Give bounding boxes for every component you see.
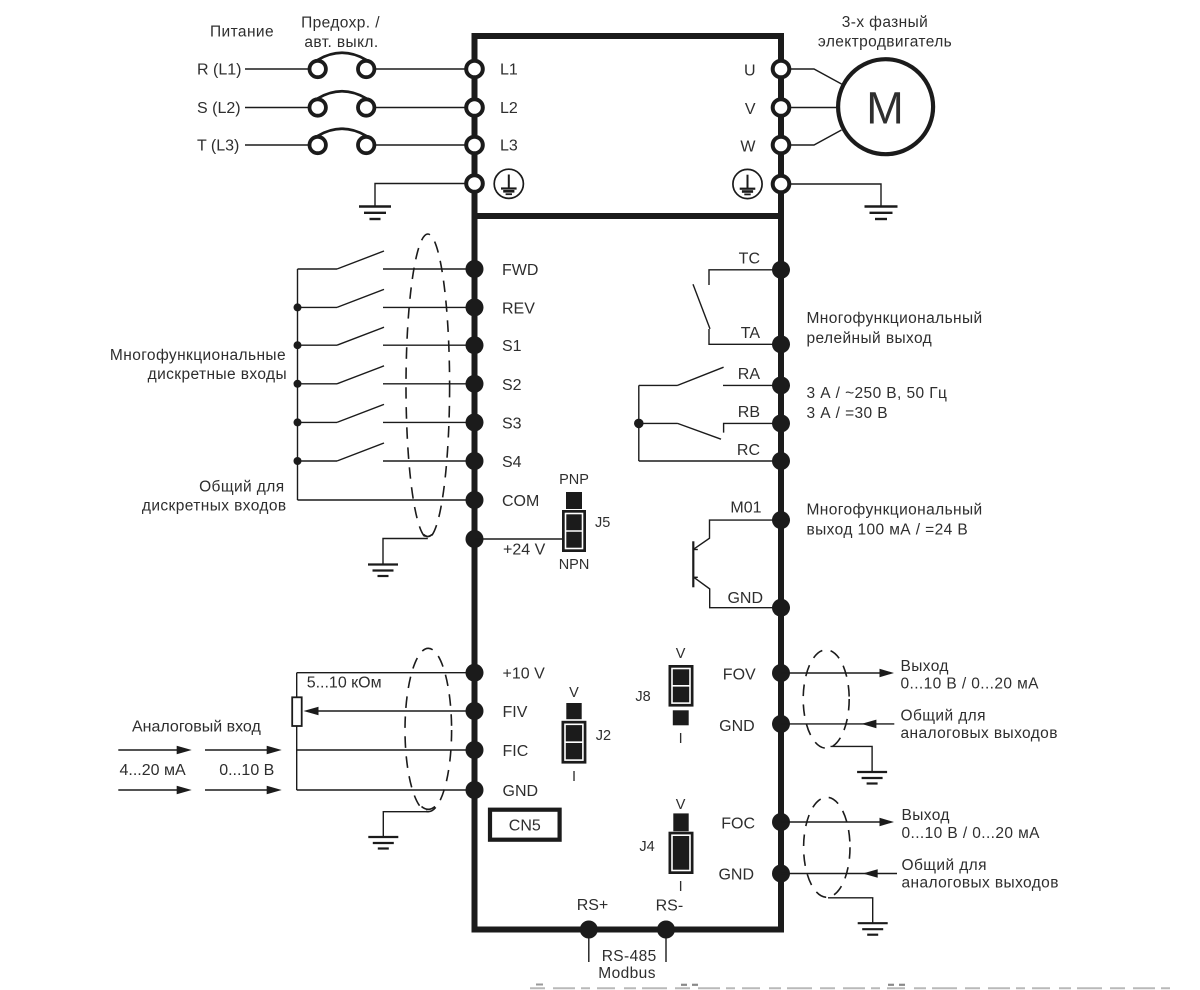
svg-text:M: M: [866, 83, 904, 134]
svg-text:CN5: CN5: [509, 818, 541, 835]
terminal L3: [466, 137, 483, 154]
svg-text:RS-: RS-: [656, 897, 684, 914]
wire T input: [245, 144, 310, 146]
wire TA to relay contact: [709, 329, 781, 344]
ground (motor side): [865, 207, 898, 220]
svg-text:S (L2): S (L2): [197, 100, 241, 117]
terminal TA: [772, 335, 790, 353]
svg-text:Питание: Питание: [210, 24, 274, 41]
terminal W: [773, 137, 790, 154]
terminal +24V: [466, 530, 484, 548]
svg-text:выход 100 мА / =24 В: выход 100 мА / =24 В: [807, 522, 969, 539]
svg-text:релейный выход: релейный выход: [807, 330, 933, 347]
svg-text:+10 V: +10 V: [503, 666, 546, 683]
switch SW-S3: [298, 404, 468, 422]
wire RA common: [639, 384, 678, 386]
wire transistor emitter to GND terminal: [694, 577, 781, 607]
wire RB fixed contact with step: [724, 423, 781, 432]
relay blade RB: [678, 423, 722, 439]
junction on bus at S2: [294, 380, 302, 388]
svg-text:NPN: NPN: [559, 557, 590, 573]
arrow: analog input current row (right): [205, 746, 282, 755]
svg-text:U: U: [744, 63, 756, 80]
svg-text:0...10 В / 0...20 мА: 0...10 В / 0...20 мА: [901, 676, 1040, 693]
wire RA fixed contact: [723, 384, 781, 386]
protective earth symbol (left, circled): [494, 169, 523, 198]
wire fuse to L3: [375, 144, 468, 146]
wire RC row: [639, 460, 781, 462]
jumper J5 top pin: [566, 492, 582, 509]
fuse F3 (T phase): [310, 129, 375, 153]
terminal COM: [466, 491, 484, 509]
svg-text:J8: J8: [635, 689, 650, 705]
svg-text:S1: S1: [502, 338, 522, 355]
wire S input: [245, 107, 310, 109]
svg-text:R (L1): R (L1): [197, 62, 241, 79]
svg-text:Выход: Выход: [902, 807, 950, 824]
svg-text:аналоговых выходов: аналоговых выходов: [902, 874, 1059, 891]
fuse F2 (S phase): [310, 91, 375, 115]
svg-text:FOV: FOV: [723, 667, 756, 684]
svg-text:GND: GND: [727, 590, 763, 607]
enclosure: inverter main box outline: [475, 36, 782, 930]
jumper J4 body: [669, 832, 694, 874]
wire PE input to ground: [375, 184, 467, 207]
connector CN5 box: [490, 810, 560, 840]
wire analog shield to ground: [383, 812, 428, 837]
svg-text:FOC: FOC: [721, 816, 755, 833]
terminal S2: [466, 375, 484, 393]
svg-text:0...10 В: 0...10 В: [219, 762, 274, 779]
svg-text:V: V: [676, 646, 686, 662]
arrow: analog input voltage row (left): [118, 786, 191, 795]
svg-text:M01: M01: [730, 500, 761, 517]
svg-text:J5: J5: [595, 515, 610, 531]
svg-text:GND: GND: [719, 718, 755, 735]
wire +24V to jumper J5: [475, 538, 563, 540]
wire R input: [245, 68, 310, 70]
svg-text:T (L3): T (L3): [197, 138, 239, 155]
svg-text:L3: L3: [500, 138, 518, 155]
junction on relay bus at RB: [634, 419, 644, 429]
jumper J8 body: [669, 665, 694, 707]
wire RB common: [639, 422, 678, 424]
wire PE output to ground: [789, 184, 881, 206]
svg-text:Общий для: Общий для: [199, 479, 284, 496]
terminal FIV: [466, 702, 484, 720]
partial cut-off caption at bottom edge: [530, 985, 1170, 989]
ground (input side): [359, 207, 391, 220]
terminal FOV: [772, 664, 790, 682]
terminal RA: [772, 376, 790, 394]
svg-text:5...10 кОм: 5...10 кОм: [307, 674, 382, 691]
arrow: analog input current row (left): [118, 746, 191, 755]
svg-text:аналоговых выходов: аналоговых выходов: [901, 725, 1058, 742]
svg-text:RS-485: RS-485: [602, 948, 657, 965]
terminal S1: [466, 336, 484, 354]
terminal FOC: [772, 813, 790, 831]
svg-text:J2: J2: [596, 728, 611, 744]
wire analog vertical bus lower: [296, 726, 298, 790]
svg-text:S2: S2: [502, 377, 522, 394]
divider line between power and control sections: [472, 213, 785, 219]
svg-text:Выход: Выход: [901, 658, 949, 675]
switch SW-FWD: [298, 251, 468, 269]
fuse F1 (R phase): [310, 53, 375, 77]
wire FIV row with arrow to potentiometer: [304, 707, 468, 716]
terminal GND (M01 return): [772, 599, 790, 617]
wire FOC shield to ground: [828, 898, 873, 923]
switch SW-S4: [298, 443, 468, 461]
terminal GND (FOV return): [772, 715, 790, 733]
wire FOV shield to ground: [831, 746, 873, 771]
jumper J5 body: [562, 510, 586, 552]
terminal FWD: [466, 260, 484, 278]
svg-text:+24 V: +24 V: [503, 542, 546, 559]
svg-text:S3: S3: [502, 415, 522, 432]
junction on bus at S3: [294, 418, 302, 426]
terminal RS+: [580, 921, 598, 939]
svg-text:дискретные входы: дискретные входы: [148, 366, 287, 383]
svg-text:RB: RB: [738, 404, 760, 421]
jumper J2 body: [562, 721, 587, 764]
svg-text:FWD: FWD: [502, 262, 538, 279]
svg-text:4...20 мА: 4...20 мА: [120, 762, 186, 779]
shield ellipse (FOC cable): [804, 797, 850, 897]
terminal RB: [772, 414, 790, 432]
terminal L2: [466, 99, 483, 116]
wire: ellipse bottom tip solid segment: [424, 535, 432, 537]
svg-text:S4: S4: [502, 454, 522, 471]
svg-text:L1: L1: [500, 62, 518, 79]
svg-text:0...10 В / 0...20 мА: 0...10 В / 0...20 мА: [902, 825, 1041, 842]
switch SW-REV: [298, 289, 468, 307]
ground (analog input shield): [368, 837, 398, 849]
svg-text:PNP: PNP: [559, 472, 589, 488]
terminal S3: [466, 413, 484, 431]
svg-text:3-х фазный: 3-х фазный: [842, 14, 929, 31]
junction on bus at S4: [294, 457, 302, 465]
svg-text:3 А / ~250 В, 50 Гц: 3 А / ~250 В, 50 Гц: [807, 385, 948, 402]
motor M1 (3-phase motor): [838, 59, 933, 154]
svg-text:Многофункциональный: Многофункциональный: [807, 310, 983, 327]
stub wire below RS+: [588, 938, 590, 962]
wire COM row: [298, 499, 468, 501]
wire relay common bus (RA/RB/RC): [638, 385, 640, 461]
svg-text:Modbus: Modbus: [598, 965, 656, 982]
wire TC to relay contact: [709, 270, 781, 285]
svg-text:FIC: FIC: [503, 743, 529, 760]
junction on bus at REV: [294, 303, 302, 311]
svg-text:L2: L2: [500, 100, 518, 117]
terminal +10V: [466, 664, 484, 682]
terminal TC: [772, 261, 790, 279]
wire GND row (analog input): [297, 789, 467, 791]
svg-text:V: V: [569, 685, 579, 701]
svg-text:J4: J4: [639, 839, 654, 855]
terminal GND (FOC return): [772, 865, 790, 883]
svg-text:электродвигатель: электродвигатель: [818, 34, 952, 51]
svg-text:авт. выкл.: авт. выкл.: [304, 34, 378, 51]
svg-text:RC: RC: [737, 442, 760, 459]
svg-text:Многофункциональный: Многофункциональный: [807, 502, 983, 519]
wire shield to ground: [383, 539, 428, 565]
svg-text:GND: GND: [718, 867, 754, 884]
terminal RS-: [657, 921, 675, 939]
wire fuse to L2: [375, 107, 468, 109]
svg-text:I: I: [679, 879, 683, 895]
shield ellipse (digital inputs cable): [406, 234, 450, 538]
ground (digital input shield): [368, 565, 398, 577]
svg-text:Предохр. /: Предохр. /: [301, 15, 380, 32]
wire W to motor: [790, 130, 842, 145]
terminal M01: [772, 511, 790, 529]
svg-text:Многофункциональные: Многофункциональные: [110, 347, 286, 364]
protective earth symbol (right, circled): [733, 169, 762, 198]
terminal U: [773, 61, 790, 78]
shield ellipse (FOV cable): [803, 650, 849, 748]
svg-text:TA: TA: [741, 325, 761, 342]
wire analog vertical bus upper: [296, 673, 298, 698]
svg-text:V: V: [745, 101, 756, 118]
potentiometer R1 5...10 kOhm: [292, 697, 302, 726]
wire U to motor: [790, 69, 842, 84]
wire: analog ellipse bottom tip solid segment: [422, 807, 436, 810]
switch SW-S2: [298, 366, 468, 384]
wire FIC row: [297, 749, 467, 751]
terminal FIC: [466, 741, 484, 759]
wire +10V row: [297, 672, 467, 674]
jumper J4 top pin: [673, 813, 688, 831]
terminal RC: [772, 452, 790, 470]
svg-text:TC: TC: [739, 251, 760, 268]
terminal S4: [466, 452, 484, 470]
terminal L1: [466, 61, 483, 78]
svg-text:REV: REV: [502, 300, 535, 317]
relay contact blade TC-TA: [693, 284, 710, 329]
svg-text:Общий для: Общий для: [901, 708, 986, 725]
svg-text:RA: RA: [738, 366, 761, 383]
svg-text:дискретных входов: дискретных входов: [142, 498, 287, 515]
svg-text:V: V: [676, 797, 686, 813]
wire FOC output with arrow: [781, 818, 894, 827]
svg-text:FIV: FIV: [503, 704, 528, 721]
jumper J2 top pin: [566, 703, 581, 719]
junction on bus at S1: [294, 341, 302, 349]
svg-text:3 А / =30 В: 3 А / =30 В: [807, 405, 889, 422]
terminal REV: [466, 298, 484, 316]
svg-text:GND: GND: [503, 783, 539, 800]
jumper J8 bottom pin: [673, 710, 689, 725]
wire V to motor: [790, 107, 840, 109]
svg-text:Общий для: Общий для: [902, 857, 987, 874]
ground (FOC shield): [858, 923, 888, 935]
wire fuse to L1: [375, 68, 468, 70]
terminal V: [773, 99, 790, 116]
svg-text:I: I: [572, 769, 576, 785]
svg-text:COM: COM: [502, 493, 539, 510]
terminal PE input: [466, 175, 483, 192]
arrow: analog input voltage row (right): [205, 786, 282, 795]
switch SW-S1: [298, 327, 468, 345]
shield ellipse (analog input cable): [405, 648, 452, 811]
svg-text:I: I: [679, 731, 683, 747]
svg-text:Аналоговый вход: Аналоговый вход: [132, 718, 261, 735]
wire GND return with arrow (FOC): [781, 869, 897, 878]
transistor Q1 (open collector output): [693, 541, 698, 587]
stub wire below RS-: [665, 938, 667, 962]
terminal GND (analog input): [466, 781, 484, 799]
wire GND return with arrow (FOV): [781, 720, 894, 729]
terminal PE output: [773, 176, 790, 193]
wire M01 to transistor collector: [694, 520, 781, 549]
svg-text:W: W: [740, 139, 756, 156]
svg-text:RS+: RS+: [577, 897, 609, 914]
wire: digital input common bus: [297, 269, 299, 500]
wire FOV output with arrow: [781, 669, 894, 678]
ground (FOV shield): [857, 772, 887, 784]
relay blade RA: [678, 367, 724, 385]
